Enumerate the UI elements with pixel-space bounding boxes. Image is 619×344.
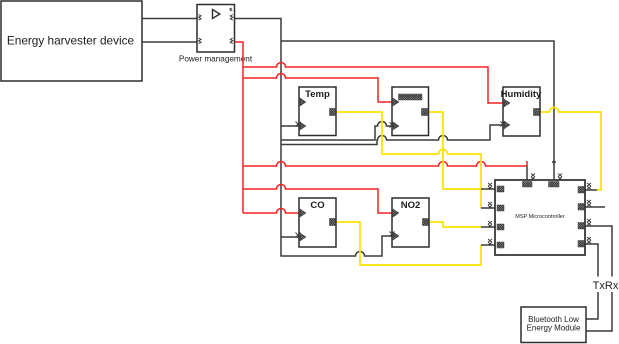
block: NO2 sensor	[392, 198, 429, 247]
block: Humidity sensor	[501, 87, 542, 136]
wire: dark stub into MSP left port 3	[481, 226, 495, 228]
pin marker: PM right-top port	[230, 15, 233, 21]
pin marker: Humidity right port	[534, 109, 540, 116]
pin marker: hatched sensor lower left port	[393, 122, 399, 130]
pin marker: MSP top port 2	[549, 182, 560, 188]
pin marker: PM right-bottom port	[230, 38, 233, 44]
svg-text:Humidity: Humidity	[501, 89, 542, 100]
wire: MSP right port 4 to Bluetooth (inner)	[585, 244, 598, 319]
pin marker: NO2 upper left port	[393, 209, 399, 217]
svg-text:Energy Module: Energy Module	[527, 324, 581, 333]
pin marker: Temp lower left port	[300, 122, 306, 130]
pin marker: hatched sensor right port	[422, 109, 428, 116]
block: Temp sensor	[299, 87, 336, 136]
wire: red branch y=67 to Humidity upper port	[243, 63, 503, 104]
wire: MSP right port 3 to Bluetooth (outer)	[585, 226, 612, 331]
wire: harvester out1 to power management in1	[142, 18, 197, 20]
wire: red branch y=166 to MSP top port 1	[243, 162, 527, 167]
wire: dark stub into MSP left port 4	[481, 244, 495, 246]
pin marker: MSP right port 1	[578, 187, 585, 194]
pin marker: MSP right port 4	[578, 241, 585, 248]
block: hatched sensor	[392, 87, 429, 136]
pin marker: Temp upper left port	[300, 98, 306, 106]
svg-text:CO: CO	[310, 200, 324, 211]
svg-text:Temp: Temp	[305, 89, 330, 100]
svg-text:NO2: NO2	[401, 200, 421, 211]
wire: ground branch to Humidity lower port	[281, 125, 503, 145]
wire: red branch y=78 to hatched sensor upper port	[243, 74, 392, 103]
wire: dark stub into MSP left port 1	[481, 188, 495, 190]
block: Energy harvester device	[1, 1, 142, 81]
pin marker: CO lower left port	[300, 233, 306, 241]
pin marker: NO2 right port	[423, 219, 429, 226]
pin marker: CO right port	[330, 219, 336, 226]
pin marker: MSP left port 3	[497, 224, 504, 230]
block: CO sensor	[299, 198, 336, 247]
pin marker: MSP top port 1	[523, 182, 533, 188]
svg-text:TxRx: TxRx	[593, 280, 619, 292]
pin marker: PM left-bottom port	[199, 38, 202, 44]
wire: ground branch to hatched sensor lower port	[281, 122, 392, 141]
wire: red power bus from PM out2	[235, 42, 243, 213]
svg-text:MSP Microcontroller: MSP Microcontroller	[515, 214, 565, 220]
pin marker: MSP left port 4	[497, 242, 504, 248]
pin marker: MSP left port 2	[497, 205, 504, 211]
node label: TxRx net	[592, 277, 619, 293]
pin marker: MSP left port 1	[497, 186, 504, 192]
wire: MSP right port 2 stub	[585, 206, 605, 208]
pin marker: MSP right port 2	[578, 204, 585, 211]
wire: Humidity signal (yellow) to MSP right port 1	[540, 108, 601, 191]
wire: red branch y=189 to NO2 upper port	[243, 185, 392, 214]
block: Power management U1	[179, 5, 253, 64]
pin marker: Humidity lower left port	[504, 121, 510, 129]
svg-text:Energy harvester device: Energy harvester device	[7, 34, 135, 48]
pin marker: CO upper left port	[300, 209, 306, 217]
wire: CO signal (yellow) to MSP left port 4	[336, 222, 481, 265]
svg-text:Power management: Power management	[179, 55, 253, 64]
wire: NO2 signal (yellow) to MSP left port 3	[429, 222, 481, 227]
junction nub on vertical net x=554	[552, 161, 555, 163]
wire: red branch y=213 to CO upper port	[243, 209, 299, 214]
wire: dark stub into MSP left port 2	[481, 207, 495, 209]
wire: ground branch y=41 to MSP top port 2	[281, 41, 554, 180]
block: MSP Microcontroller	[495, 180, 585, 255]
wire: ground net from PM out1, vertical bus x=281 down to y=256 with branches	[235, 19, 392, 257]
block: Bluetooth Low Energy Module	[521, 307, 586, 343]
pin marker: Temp right port	[330, 109, 336, 116]
wire: dark stub MSP right port 1	[585, 189, 597, 191]
wire: dark drop from red elbow into MSP top port 1	[526, 166, 528, 180]
pin marker: MSP right port 3	[578, 223, 585, 230]
wire: Temp signal (yellow) to MSP left port 2	[336, 112, 481, 208]
pin marker: hatched sensor upper left port	[393, 98, 399, 106]
pin marker: Humidity upper left port	[504, 99, 510, 107]
pin marker: NO2 lower left port	[393, 232, 399, 240]
pin marker: PM left-top port	[199, 15, 202, 21]
wire: harvester out2 to power management in2	[142, 41, 197, 43]
wire: hatched sensor signal (yellow) to MSP left port 1	[428, 112, 481, 189]
wire: ground branch to CO lower port	[281, 236, 299, 238]
wire: ground branch to Temp lower port	[281, 125, 299, 127]
